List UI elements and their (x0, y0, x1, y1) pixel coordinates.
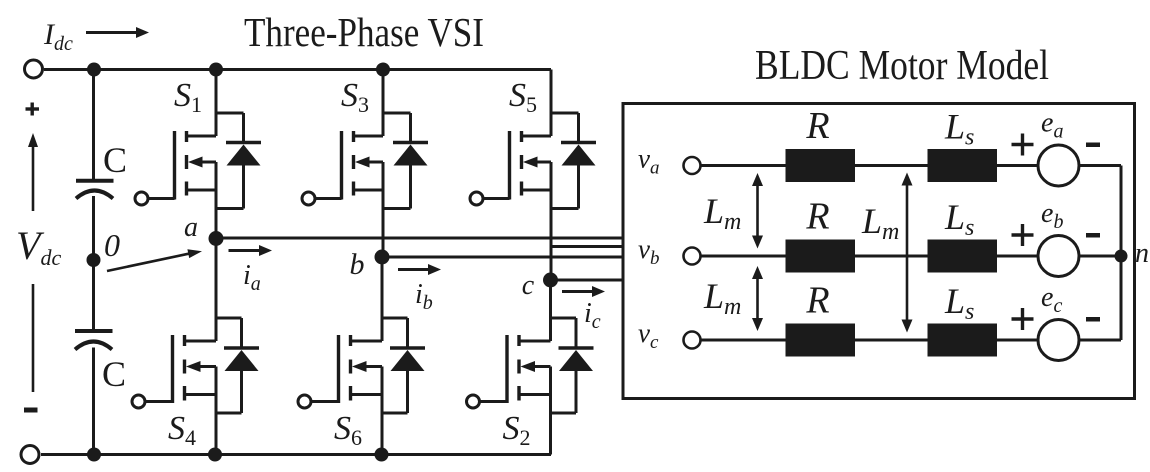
svg-text:BLDC Motor Model: BLDC Motor Model (755, 43, 1049, 89)
arrow: from node 0 to phase node a (107, 253, 191, 271)
svg-text:R: R (805, 280, 829, 322)
arrow: ib current (398, 268, 432, 271)
mutual inductance arrow Lm (b-c) (756, 275, 759, 322)
label: - (ec polarity) (1086, 317, 1100, 322)
svg-text:R: R (805, 196, 829, 238)
terminal: DC negative input (21, 446, 39, 464)
junction: bottom rail / capacitor leg (87, 448, 101, 462)
wire: Ls to ec source (997, 339, 1038, 342)
svg-text:C: C (102, 354, 126, 394)
label: - (ea polarity) (1086, 143, 1100, 148)
transistor S3 (upper MOSFET with body diode) (302, 70, 428, 209)
label: - (eb polarity) (1086, 233, 1100, 238)
node c (543, 273, 558, 288)
wire: Ls to ea source (997, 164, 1038, 167)
wire: top DC+ rail (44, 68, 551, 71)
node b (375, 250, 390, 265)
transistor S5 (upper MOSFET with body diode) (470, 70, 596, 209)
label: + (ea polarity) (1012, 143, 1034, 146)
inductor Ls (phase a) (928, 149, 998, 182)
arrow: ia current (229, 249, 264, 252)
mutual inductance arrow Lm (a-b) (756, 182, 759, 240)
wire: phase b to motor box (382, 256, 623, 259)
wire: C1 to C2 (midpoint leg) (92, 196, 95, 331)
junction: top rail / capacitor leg (87, 63, 101, 77)
wire: Vdc lower reference line (32, 284, 35, 392)
label: + (eb polarity) (1012, 233, 1034, 236)
wire: ea to neutral bus (1079, 164, 1121, 167)
junction: bottom rail / S6 source (375, 448, 389, 462)
svg-text:a: a (184, 212, 198, 243)
wire: R to Ls (phase b) (855, 255, 928, 258)
wire: node b to S6 drain (381, 257, 384, 341)
wire: S5 source to node c (550, 190, 553, 280)
node a (209, 231, 224, 246)
capacitor C1 (upper DC-link cap) (76, 179, 114, 183)
terminal va (684, 157, 701, 174)
node 0 (DC midpoint) (87, 253, 101, 267)
source ec (back-EMF) (1038, 320, 1079, 361)
wire: top rail to capacitor C1 (92, 70, 95, 181)
source ea (back-EMF) (1038, 145, 1079, 186)
wire: phase c upper link to motor box (551, 245, 623, 248)
wire: R to Ls (phase a) (855, 164, 928, 167)
svg-text:n: n (1135, 238, 1149, 269)
resistor R (phase a) (786, 149, 856, 182)
svg-text:R: R (805, 105, 829, 147)
transistor S1 (upper MOSFET with body diode) (135, 70, 261, 209)
wire: node c to S2 drain (549, 280, 552, 341)
wire: va to R (701, 164, 786, 167)
arrow: Idc current direction (86, 31, 140, 34)
capacitor C2 (lower DC-link cap) (75, 329, 113, 333)
wire: neutral bus vertical (1120, 166, 1123, 341)
transistor S4 (lower MOSFET with body diode) (132, 318, 259, 455)
label: + (ec polarity) (1012, 317, 1034, 320)
inductor Ls (phase c) (928, 324, 998, 357)
wire: phase c to motor box (551, 279, 624, 282)
resistor R (phase b) (786, 240, 856, 273)
junction: bottom rail / S4 source (208, 448, 222, 462)
label: - (Vdc polarity bottom) (24, 408, 38, 413)
wire: S3 source to node b (382, 190, 385, 257)
arrow: Vdc voltage (up) (32, 140, 35, 211)
wire: R to Ls (phase c) (855, 339, 928, 342)
junction: top rail / S3 drain (376, 63, 390, 77)
terminal: DC positive input (25, 60, 43, 78)
node n (neutral) (1115, 250, 1128, 263)
arrow: ic current (562, 290, 596, 293)
wire: S1 source to node a (215, 190, 218, 239)
svg-text:C: C (103, 140, 127, 180)
wire: phase a to motor box (216, 237, 623, 240)
resistor R (phase c) (786, 324, 856, 357)
wire: Ls to eb source (997, 255, 1038, 258)
wire: vb to R (701, 255, 786, 258)
source eb (back-EMF) (1038, 236, 1079, 277)
junction: top rail / S1 drain (209, 63, 223, 77)
wire: C2 to bottom rail (92, 348, 95, 455)
wire: node a to S4 drain (215, 239, 218, 342)
terminal vb (684, 248, 701, 265)
wire: eb to neutral bus (1079, 255, 1121, 258)
wire: vc to R (701, 339, 786, 342)
svg-text:Three-Phase VSI: Three-Phase VSI (244, 9, 484, 55)
inductor Ls (phase b) (928, 240, 998, 273)
wire: ec to neutral bus (1079, 339, 1121, 342)
wire: bottom DC- rail (41, 453, 551, 456)
label: + (Vdc polarity top) (26, 107, 40, 110)
svg-text:c: c (522, 270, 535, 301)
svg-text:0: 0 (104, 227, 120, 263)
svg-text:b: b (350, 248, 365, 281)
transistor S6 (lower MOSFET with body diode) (298, 318, 425, 455)
mutual inductance arrow Lm (a-c) (906, 182, 909, 324)
terminal vc (684, 332, 701, 349)
box: BLDC motor model outline (623, 104, 1135, 399)
transistor S2 (lower MOSFET with body diode) (467, 318, 594, 455)
